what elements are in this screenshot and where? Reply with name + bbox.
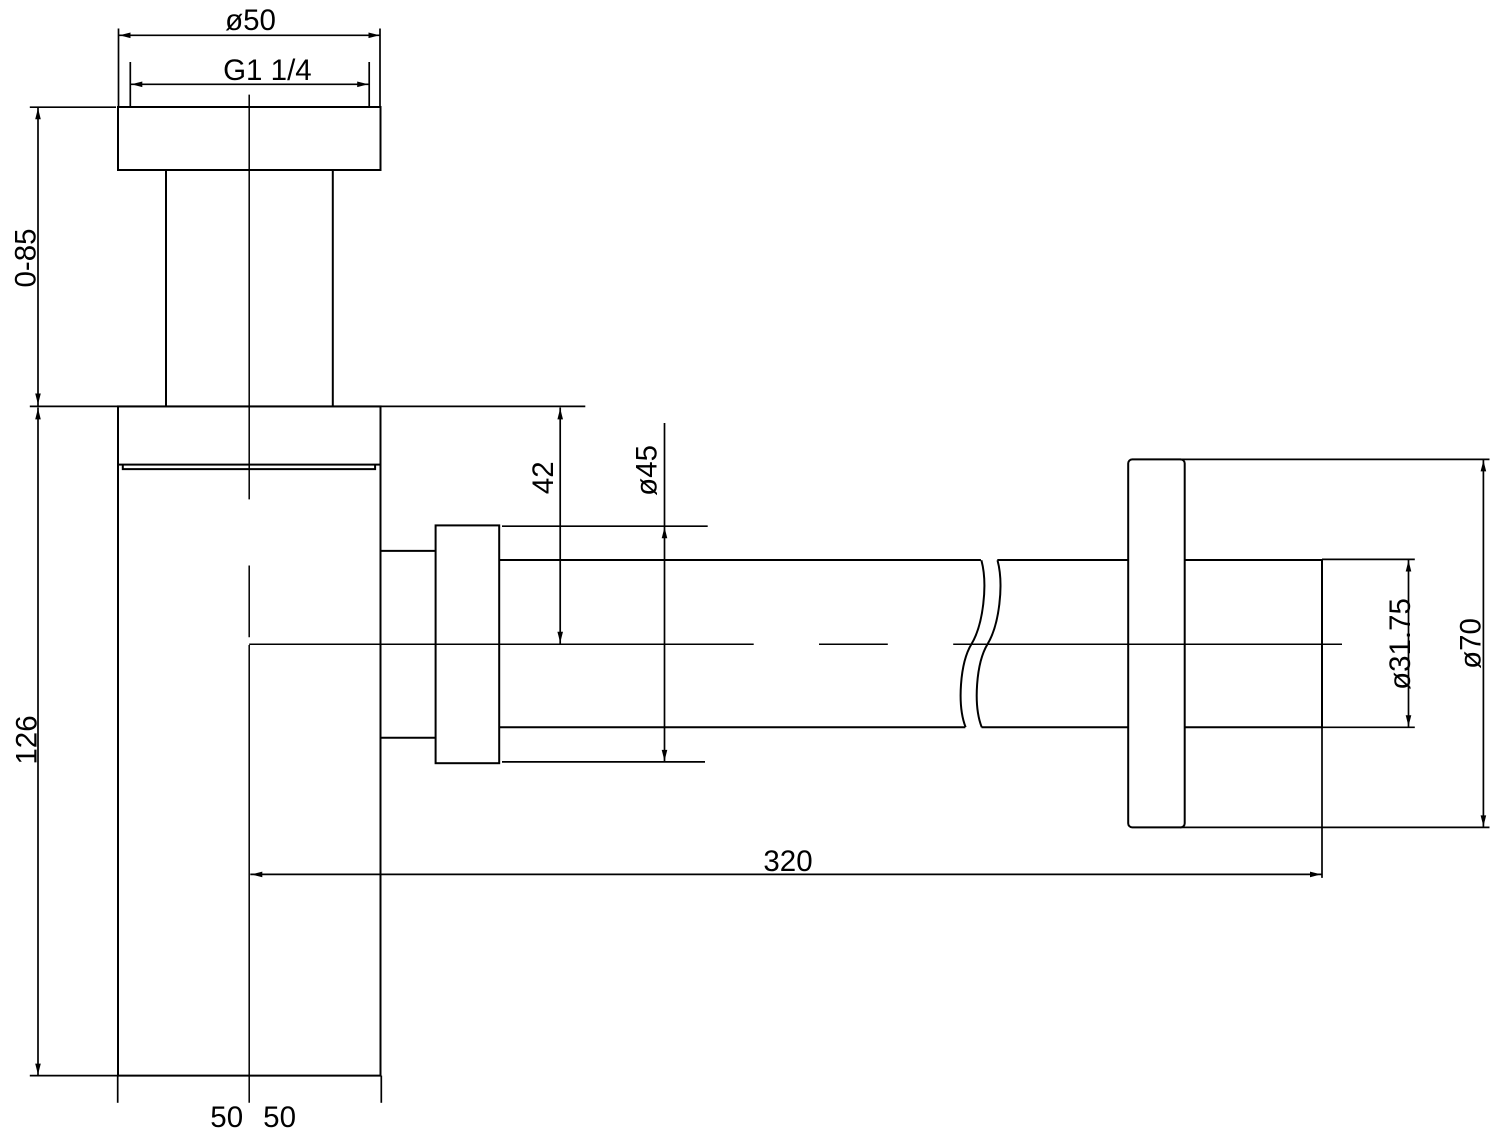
dim d45 extension top xyxy=(502,525,708,527)
arrow 0-85 bottom xyxy=(35,394,41,405)
vertical centerline of trap xyxy=(248,95,250,1103)
dim G1 1/4 extension left xyxy=(129,62,131,107)
svg-text:G1 1/4: G1 1/4 xyxy=(223,54,312,87)
outlet nut xyxy=(436,525,500,763)
svg-text:0-85: 0-85 xyxy=(10,228,43,287)
dim d45 line xyxy=(664,423,666,762)
pipe bottom edge segment 2 xyxy=(982,726,1129,728)
arrow 126 top xyxy=(35,408,41,419)
arrow d45 bottom xyxy=(662,750,668,761)
arrow d50 right xyxy=(369,33,380,39)
svg-text:ø50: ø50 xyxy=(225,4,276,37)
dim 42 line xyxy=(559,408,561,644)
arrow G1 left xyxy=(131,82,142,88)
arrow 42 top xyxy=(557,408,563,419)
svg-text:320: 320 xyxy=(763,845,812,878)
dim d50 extension right xyxy=(379,29,381,107)
svg-text:ø45: ø45 xyxy=(631,445,664,496)
dim d45 extension bottom xyxy=(502,761,705,763)
arrow 320 right xyxy=(1310,872,1321,878)
arrow 320 left xyxy=(251,872,262,878)
outlet stub bottom xyxy=(381,737,436,739)
dim G1 1/4 line xyxy=(130,83,369,85)
arrow 126 bottom xyxy=(35,1064,41,1075)
outlet stub top xyxy=(381,550,436,552)
mid flange (body cap) xyxy=(118,406,381,464)
dim 320 line xyxy=(250,873,1322,875)
arrow d70 bottom xyxy=(1481,815,1487,826)
dim d50 extension left xyxy=(118,29,120,107)
arrow 42 bottom xyxy=(557,632,563,643)
pipe break curve 2 xyxy=(977,560,1001,727)
svg-text:50: 50 xyxy=(210,1101,243,1134)
dim d50 line xyxy=(119,34,381,36)
pipe top edge segment 3 xyxy=(1185,559,1322,561)
inlet pipe wall left xyxy=(165,170,167,406)
arrow d70 top xyxy=(1481,460,1487,471)
trap cup body xyxy=(118,465,381,1076)
pipe bottom edge segment 1 xyxy=(499,726,965,728)
dim d70 line xyxy=(1482,459,1484,827)
dim 0-85 line xyxy=(37,107,39,405)
svg-text:50: 50 xyxy=(263,1101,296,1134)
svg-text:ø70: ø70 xyxy=(1455,618,1488,669)
dim 126 extension bottom xyxy=(30,1075,118,1077)
pipe top edge segment 2 xyxy=(997,559,1128,561)
wall flange (escutcheon) xyxy=(1128,459,1185,827)
dim d31.75 line xyxy=(1408,560,1410,727)
arrow d50 left xyxy=(120,33,131,39)
top flange (sink nut) xyxy=(118,107,381,170)
arrow d45 top xyxy=(662,527,668,538)
arrow d31.75 top xyxy=(1406,561,1412,572)
dim d70 extension bottom xyxy=(1180,826,1490,828)
dim d70 extension top xyxy=(1180,458,1490,460)
arrow 0-85 top xyxy=(35,108,41,119)
dim 320 extension right xyxy=(1321,728,1323,878)
joint line under cap xyxy=(123,465,375,470)
arrow d31.75 bottom xyxy=(1406,715,1412,726)
dim d31.75 extension top xyxy=(1322,558,1415,560)
dim 50-50 tick left xyxy=(117,1076,119,1103)
svg-text:42: 42 xyxy=(527,461,560,494)
pipe top edge segment 1 xyxy=(499,559,981,561)
horizontal centerline of pipe xyxy=(249,643,1342,645)
pipe break curve 1 xyxy=(961,560,985,727)
dim 0-85 extension top xyxy=(30,106,116,108)
arrow G1 right xyxy=(357,82,368,88)
dim d31.75 extension bottom xyxy=(1322,726,1415,728)
pipe wall end xyxy=(1321,559,1323,728)
svg-text:ø31.75: ø31.75 xyxy=(1384,598,1417,690)
shared extension line at flange top xyxy=(30,405,586,407)
dim 50-50 tick right xyxy=(380,1076,382,1103)
dim 126 line xyxy=(37,408,39,1076)
inlet pipe wall right xyxy=(332,170,334,406)
pipe bottom edge segment 3 xyxy=(1185,726,1322,728)
svg-text:126: 126 xyxy=(11,715,44,764)
dim G1 1/4 extension right xyxy=(368,62,370,107)
